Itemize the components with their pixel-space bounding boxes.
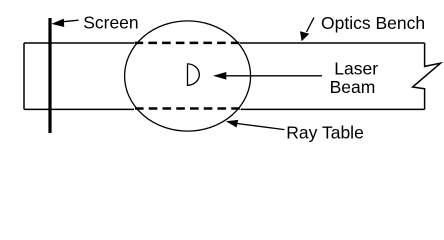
svg-text:Laser: Laser	[334, 59, 378, 79]
screen (thick vertical line)	[48, 18, 51, 133]
laser beam arrow line	[225, 75, 322, 77]
ray table leader line	[236, 123, 285, 129]
ray table (circle)	[125, 21, 251, 131]
screen arrowhead	[51, 19, 64, 27]
svg-text:Optics Bench: Optics Bench	[321, 13, 425, 33]
laser beam arrowhead	[213, 72, 226, 80]
optics bench arrowhead	[300, 31, 309, 41]
laser beam D-shape	[188, 64, 200, 85]
ray table arrowhead	[226, 120, 238, 128]
screen leader line	[62, 20, 79, 22]
svg-text:Ray Table: Ray Table	[286, 122, 364, 142]
optics bench leader line	[307, 17, 315, 32]
optics bench outline (solid segments)	[24, 43, 425, 109]
svg-text:Screen: Screen	[83, 12, 138, 32]
bench bottom hidden edge (dashed through ray table)	[135, 107, 240, 110]
bench top hidden edge (dashed through ray table)	[135, 42, 240, 45]
optics bench right break (torn edge)	[413, 43, 441, 109]
svg-text:Beam: Beam	[330, 77, 376, 97]
